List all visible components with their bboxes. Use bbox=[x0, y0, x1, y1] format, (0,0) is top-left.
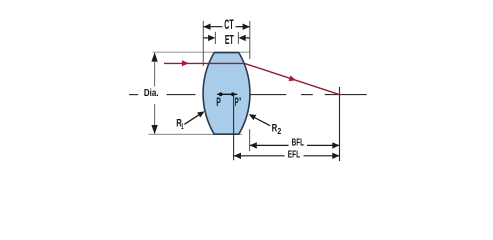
CT extension line right bbox=[249, 21, 251, 59]
EFL dimension line bbox=[234, 155, 285, 157]
principal points connector line bbox=[217, 93, 237, 95]
svg-text:CT: CT bbox=[224, 17, 234, 32]
svg-text:2: 2 bbox=[277, 127, 281, 136]
Dia. arrow up bbox=[151, 52, 157, 61]
focal plane extension line bbox=[339, 87, 341, 161]
EFL arrow left bbox=[234, 153, 241, 159]
svg-text:P: P bbox=[216, 95, 221, 109]
top reference line bbox=[153, 51, 251, 53]
R2 arrow bbox=[253, 117, 270, 126]
CT dimension line bbox=[203, 26, 222, 28]
P'' plane vertical line (EFL reference) bbox=[233, 94, 235, 160]
svg-text:1: 1 bbox=[181, 122, 184, 131]
red ray arrowhead 1 bbox=[182, 60, 189, 66]
principal point P'' dot bbox=[231, 92, 235, 96]
optical axis (dash segments) bbox=[129, 94, 367, 96]
BFL dimension line bbox=[250, 144, 289, 146]
red ray incoming segment bbox=[164, 62, 245, 64]
bottom reference line bbox=[149, 133, 243, 135]
Dia. dimension line bbox=[154, 53, 156, 87]
svg-text:ET: ET bbox=[225, 33, 234, 47]
BFL arrow right bbox=[332, 142, 339, 148]
svg-text:Dia.: Dia. bbox=[144, 88, 159, 99]
CT extension line left bbox=[202, 21, 204, 66]
principal point P dot bbox=[219, 92, 223, 96]
R1 arrow bbox=[184, 114, 200, 125]
CT arrow right bbox=[243, 24, 250, 30]
BFL extension line bbox=[249, 129, 251, 151]
svg-text:EFL: EFL bbox=[288, 150, 300, 161]
BFL arrow left bbox=[250, 142, 257, 148]
CT arrow left bbox=[203, 24, 210, 30]
ET dimension left arrow bbox=[203, 37, 209, 39]
EFL arrow right bbox=[332, 153, 339, 159]
lens L1 bbox=[203, 53, 250, 135]
red ray arrowhead 2 bbox=[289, 75, 297, 81]
Dia. arrow down bbox=[151, 125, 157, 134]
svg-text:BFL: BFL bbox=[292, 138, 304, 149]
ET tick left bbox=[214, 32, 216, 44]
svg-text:P″: P″ bbox=[235, 95, 242, 109]
red ray refracted segment bbox=[245, 63, 340, 94]
ET dimension right arrow bbox=[245, 37, 250, 39]
ET tick right bbox=[237, 32, 239, 44]
